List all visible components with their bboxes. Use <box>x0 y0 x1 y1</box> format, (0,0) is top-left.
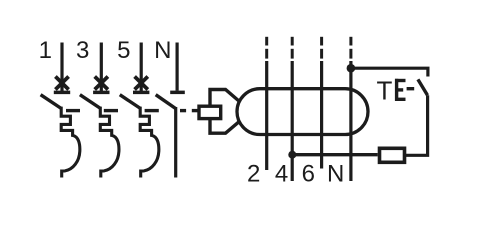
pole 3 fixed contact bar <box>93 91 109 95</box>
pole 3 switch blade <box>80 95 101 109</box>
line N dashes <box>349 37 352 59</box>
pole 5 contact X <box>135 77 148 90</box>
line 2 dashes <box>265 37 268 59</box>
button linkage dash <box>407 87 415 90</box>
svg-text:4: 4 <box>275 160 288 187</box>
pole 5 switch blade <box>120 95 141 109</box>
line 6 wire <box>320 61 323 169</box>
line N wire <box>349 61 352 181</box>
pole N wire top <box>176 43 179 91</box>
test wire right side down to resistor <box>406 95 428 155</box>
pole 3 trip unit <box>100 107 119 178</box>
trip relay coil <box>199 106 221 118</box>
pole 1 fixed contact bar <box>54 91 70 95</box>
pole N fixed contact bar <box>170 91 185 95</box>
trip relay housing polygon <box>210 90 240 134</box>
svg-text:2: 2 <box>247 160 260 187</box>
pole 1 wire top <box>60 43 63 93</box>
line 2 wire <box>265 61 268 170</box>
pole 3 contact X <box>95 77 108 90</box>
svg-text:1: 1 <box>39 37 52 64</box>
line 6 dashes <box>320 37 323 59</box>
svg-text:6: 6 <box>302 160 315 187</box>
test wire bottom <box>292 153 378 156</box>
pole N switch blade <box>156 95 176 109</box>
pole N wire down <box>174 107 177 178</box>
test wire top <box>351 68 428 76</box>
pole 3 wire top <box>100 43 103 93</box>
svg-text:3: 3 <box>76 37 89 64</box>
pole 5 trip unit <box>140 107 159 178</box>
pole 5 wire top <box>140 43 143 93</box>
svg-text:N: N <box>154 37 171 64</box>
pole 5 fixed contact bar <box>133 91 149 95</box>
test switch blade <box>418 79 428 95</box>
toroidal core <box>237 89 368 135</box>
line 4 wire <box>291 61 294 181</box>
node on line 4 <box>288 151 296 159</box>
test resistor <box>380 148 405 162</box>
node on line N <box>347 64 356 73</box>
pole 1 contact X <box>55 77 68 90</box>
test button actuator <box>395 79 406 101</box>
pole 1 trip unit (thermal step + magnetic coil) <box>61 107 80 178</box>
mechanical linkage dashed line <box>66 109 198 112</box>
svg-text:5: 5 <box>117 37 130 64</box>
svg-text:T: T <box>377 76 393 106</box>
line 4 dashes <box>291 37 294 59</box>
pole 1 switch blade <box>41 95 62 109</box>
svg-text:N: N <box>327 160 344 187</box>
